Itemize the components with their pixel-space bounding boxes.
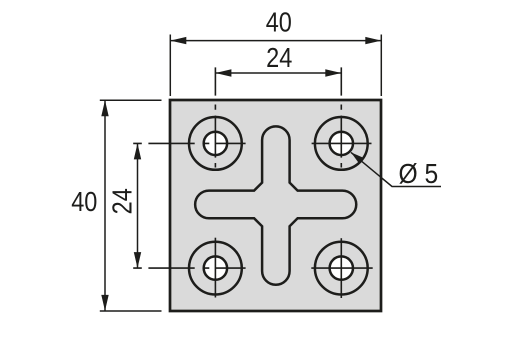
centerline TR horizontal [312,142,372,144]
centerline BR vertical [340,238,342,298]
hole BR bore Ø5 [330,256,353,279]
dimension line 40 left [104,100,106,311]
svg-text:24: 24 [266,43,292,73]
arrow 24 top left [215,69,231,76]
arrow 24 left bottom [134,252,141,268]
extension line plate right edge (top 40 dim) [380,35,382,97]
svg-text:Ø 5: Ø 5 [399,158,439,190]
hole BR outer circle [315,242,368,295]
arrow 24 top right [325,69,341,76]
centerline BL vertical [214,238,216,298]
arrow 40 top left [170,37,186,44]
hole TL bore Ø5 [204,132,227,155]
extension line plate left edge (top 40 dim) [169,35,171,97]
svg-text:40: 40 [71,187,97,217]
dimension line 40 top [170,40,381,42]
hole TR outer circle [315,117,368,170]
hole BL outer circle [189,242,242,295]
arrow 40 left bottom [101,295,108,311]
hole BL bore Ø5 [204,256,227,279]
dimension line 24 top [215,72,341,74]
extension line plate top edge (left 40 dim) [100,99,162,101]
centerline row bottom horizontal (extension of left 24 dim) [133,267,245,269]
centerline row top horizontal (extension of left 24 dim) [133,142,245,144]
arrow 40 left top [101,100,108,116]
centerline BR horizontal [311,267,372,269]
arrow 24 left top [134,143,141,159]
leader arrow to TR bore [351,152,364,163]
arrow 40 top right [365,37,381,44]
hole TR bore Ø5 [330,132,353,155]
svg-text:40: 40 [266,7,292,37]
cross slot cutout [195,126,356,284]
centerline TR vertical (extension of top 24 dim) [340,67,342,167]
extension line plate bottom edge (left 40 dim) [100,310,162,312]
leader line [351,152,441,186]
svg-text:24: 24 [108,188,138,214]
plate body 40x40 [170,100,381,311]
hole TL outer circle [189,117,242,170]
dimension line 24 left [137,143,139,268]
centerline TL vertical (extension of top 24 dim) [214,67,216,167]
